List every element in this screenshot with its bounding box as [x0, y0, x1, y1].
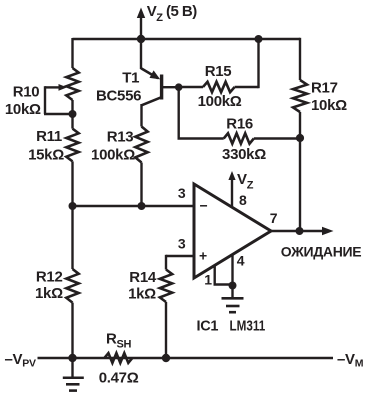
wire R11 to node A — [71, 161, 73, 206]
svg-text:ОЖИДАНИЕ: ОЖИДАНИЕ — [281, 244, 362, 260]
svg-text:10kΩ: 10kΩ — [311, 97, 347, 114]
label Vz (5 B) — [147, 3, 197, 24]
output arrow — [322, 227, 334, 236]
pin 8 Vz arrow — [228, 171, 235, 207]
svg-text:1kΩ: 1kΩ — [128, 286, 156, 303]
label pin 1 — [204, 272, 212, 288]
resistor R13 — [135, 127, 147, 163]
svg-text:−: − — [200, 198, 208, 214]
resistor R15 — [203, 82, 235, 92]
wire T1 collector to R13 — [140, 104, 142, 127]
resistor R16 — [224, 133, 254, 143]
label BC556 — [96, 88, 141, 105]
wire T1 emitter from rail — [140, 39, 142, 69]
svg-text:R11: R11 — [36, 128, 62, 145]
svg-text:3: 3 — [178, 236, 186, 252]
label R10 value — [5, 101, 41, 118]
resistor R12 — [66, 269, 78, 303]
label T1 — [122, 70, 139, 87]
svg-text:7: 7 — [270, 210, 278, 226]
label RSH value — [99, 370, 139, 387]
node Vz rail / T1 emitter junction — [137, 35, 145, 43]
svg-text:LM311: LM311 — [230, 318, 266, 334]
svg-text:R13: R13 — [107, 129, 134, 146]
svg-text:1: 1 — [204, 272, 212, 288]
svg-text:T1: T1 — [122, 70, 139, 87]
wire R10 bottom to wiper node — [71, 100, 73, 115]
wire R13 to node B — [140, 163, 142, 207]
potentiometer R10 — [66, 68, 78, 100]
svg-text:R15: R15 — [205, 63, 232, 80]
label R15 value — [198, 93, 242, 110]
svg-text:VZ: VZ — [237, 171, 254, 192]
wire node A to R12 — [71, 206, 73, 269]
label R13 value — [91, 147, 135, 164]
label R12 value — [35, 285, 63, 302]
wire top +Vz rail — [73, 38, 301, 41]
op-amp IC1 triangle — [194, 184, 271, 278]
wire R12 to bottom rail — [71, 303, 73, 358]
label R17 value — [311, 97, 347, 114]
label R11 — [36, 128, 62, 145]
svg-text:R12: R12 — [36, 269, 63, 286]
transistor T1 collector — [142, 97, 162, 105]
wire T1 base to node C — [163, 86, 179, 88]
label -Vpv — [5, 351, 36, 370]
wire node C down to R16 level — [178, 87, 224, 138]
svg-text:–VPV: –VPV — [5, 351, 36, 370]
wire R14 to bottom rail — [165, 302, 167, 358]
svg-text:–VM: –VM — [337, 351, 364, 370]
label pin 4 — [237, 253, 245, 269]
node Vz rail / R15 junction — [255, 35, 263, 43]
label pin 3 inverting — [178, 185, 186, 201]
node R12/ground junction — [68, 354, 76, 362]
label -Vm — [337, 351, 364, 370]
transistor T1 emitter with arrow — [141, 68, 160, 79]
R10 wiper arrow — [44, 84, 73, 114]
wire pin 7 output — [271, 230, 324, 232]
svg-text:100kΩ: 100kΩ — [198, 93, 242, 110]
wire node D to output node — [299, 138, 301, 231]
wire rail corner down to R17 — [299, 38, 301, 80]
label R13 — [107, 129, 134, 146]
wire non-inverting input — [166, 255, 194, 270]
svg-text:4: 4 — [237, 253, 245, 269]
label R16 value — [222, 146, 266, 163]
svg-text:R17: R17 — [311, 80, 338, 97]
ground bottom-left — [63, 358, 84, 391]
label pin 7 — [270, 210, 278, 226]
node C (T1 base) — [175, 83, 183, 91]
node R14/RSH junction — [162, 354, 170, 362]
resistor RSH — [104, 353, 132, 363]
wire left column top (rail to R10) — [71, 38, 73, 68]
svg-text:8: 8 — [239, 192, 247, 208]
node pin1/pin4 junction — [229, 282, 237, 290]
wire R15 to rail riser — [235, 39, 259, 88]
svg-text:VZ (5 В): VZ (5 В) — [147, 3, 197, 24]
node R10/R11 junction — [69, 110, 77, 118]
label R16 — [226, 115, 253, 132]
wire pin 1 — [214, 265, 233, 285]
label pin 3 non-inverting — [178, 236, 186, 252]
wire node C to R15 — [179, 86, 203, 88]
label R14 value — [128, 286, 156, 303]
svg-text:R14: R14 — [129, 269, 157, 286]
node D (R16/R17 junction) — [296, 134, 304, 142]
label minus input — [200, 198, 208, 214]
wire R16 to node D — [254, 137, 300, 139]
label R17 — [311, 80, 338, 97]
label R12 — [36, 269, 63, 286]
label pin 8 — [239, 192, 247, 208]
wire R17 to node D — [299, 112, 301, 138]
svg-text:IC1: IC1 — [197, 318, 219, 334]
power Vz (5V) arrow — [137, 8, 145, 40]
label R10 — [13, 84, 40, 101]
label R14 — [129, 269, 157, 286]
node A (R11/R12/inverting input) — [69, 202, 77, 210]
node output junction — [296, 227, 304, 235]
svg-text:100kΩ: 100kΩ — [91, 147, 135, 164]
svg-text:RSH: RSH — [106, 330, 132, 350]
node B (R13/inverting input) — [138, 202, 146, 210]
svg-text:R10: R10 — [13, 84, 40, 101]
svg-text:3: 3 — [178, 185, 186, 201]
label IC1 LM311 — [197, 318, 266, 334]
wire bottom rail — [38, 357, 334, 360]
svg-text:BC556: BC556 — [96, 88, 141, 105]
resistor R17 — [293, 80, 307, 112]
label RSH — [106, 330, 132, 350]
label plus input — [199, 248, 207, 264]
wire R10 to R11 — [71, 114, 73, 129]
svg-text:10kΩ: 10kΩ — [5, 101, 41, 118]
wire pin 4 — [231, 255, 233, 286]
label Vz at pin 8 — [237, 171, 254, 192]
svg-text:R16: R16 — [226, 115, 253, 132]
svg-text:330kΩ: 330kΩ — [222, 146, 266, 163]
svg-text:15kΩ: 15kΩ — [28, 147, 64, 164]
label R15 — [205, 63, 232, 80]
ground IC1 — [222, 286, 244, 313]
transistor T1 base bar — [160, 75, 163, 100]
svg-text:+: + — [199, 248, 207, 264]
resistor R11 — [66, 129, 78, 162]
wire inverting input — [73, 205, 195, 207]
svg-text:0.47Ω: 0.47Ω — [99, 370, 139, 387]
svg-text:1kΩ: 1kΩ — [35, 285, 63, 302]
resistor R14 — [160, 270, 172, 303]
label R11 value — [28, 147, 64, 164]
label OZHIDANIE — [281, 244, 362, 260]
